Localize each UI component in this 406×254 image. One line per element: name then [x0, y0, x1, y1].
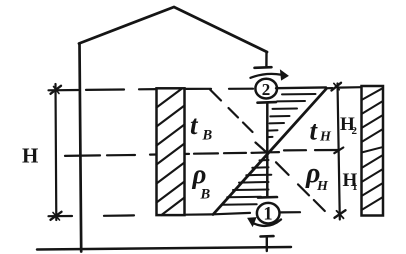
svg-text:B: B	[202, 128, 213, 144]
flange of pipe stub 2	[255, 66, 272, 69]
hatching of right wall	[362, 88, 384, 100]
bottom pipe stub stem	[266, 237, 268, 251]
ground line	[37, 247, 291, 250]
upper vane blade hatching	[276, 86, 326, 89]
svg-text:H: H	[316, 179, 329, 194]
left hatched wall (inner wall t_B)	[157, 88, 185, 215]
tick middle of right dimension	[334, 148, 343, 154]
rotation arrow of opening 2	[251, 74, 282, 78]
svg-text:1: 1	[263, 204, 272, 224]
tick bottom of right dimension	[335, 210, 346, 218]
left wall of building	[80, 44, 82, 252]
vane shaft (center stem)	[266, 103, 269, 198]
vane dashed diagonal (open position)	[210, 90, 221, 101]
bottom pipe stub flange	[261, 235, 274, 238]
svg-text:t: t	[310, 116, 319, 146]
hatching of left wall	[157, 89, 183, 108]
svg-text:2: 2	[262, 80, 271, 99]
opening 1 circle	[257, 203, 280, 224]
svg-text:1: 1	[352, 181, 358, 193]
tick top of right dimension	[332, 83, 342, 91]
shaft bottom flange	[258, 196, 277, 199]
top dashed level line (level of opening 2)	[49, 89, 79, 92]
tick top of dimension H	[51, 86, 62, 94]
bottom dashed level line (level of opening 1)	[49, 215, 73, 217]
svg-text:H: H	[22, 144, 38, 168]
middle dashed level line	[65, 154, 100, 157]
svg-text:ρ: ρ	[192, 159, 207, 189]
left dimension line H	[54, 84, 57, 220]
vane solid diagonal (closed position)	[213, 89, 327, 215]
tick bottom of dimension H	[51, 212, 62, 220]
right dimension line (H1 H2)	[338, 84, 340, 220]
roof of building	[79, 7, 267, 52]
svg-text:2: 2	[352, 125, 358, 137]
right hatched wall	[362, 86, 384, 216]
pipe stub from roof to opening 2	[265, 52, 268, 67]
shaft top flange	[258, 101, 277, 104]
svg-text:B: B	[200, 187, 211, 203]
lower vane blade hatching	[260, 159, 269, 161]
svg-text:H: H	[319, 130, 332, 145]
svg-text:t: t	[190, 110, 199, 140]
opening 2 circle	[255, 79, 277, 99]
rotation arrow of opening 1	[253, 220, 282, 226]
